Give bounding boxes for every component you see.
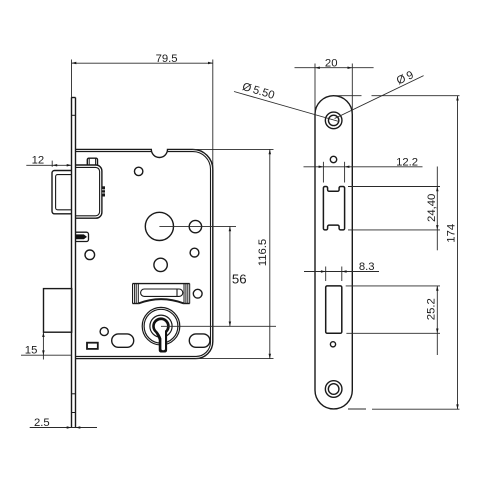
svg-text:79.5: 79.5	[156, 53, 178, 65]
dim 25.2 extension top	[346, 285, 440, 287]
lower tab below latch (pin with conical tip)	[76, 232, 89, 241]
dim 56 line	[229, 226, 231, 326]
svg-text:20: 20	[325, 58, 338, 70]
dim 116.5 extension bottom	[196, 358, 274, 360]
cylinder ring inner	[150, 315, 172, 337]
arrows 116.5	[269, 149, 272, 154]
oval slot left	[112, 334, 134, 347]
lock case outer outline	[76, 149, 213, 358]
leader diameter 5.50	[234, 92, 339, 122]
dim 8.3 ticks	[325, 267, 327, 282]
faceplate edge view (left view)	[72, 98, 76, 428]
spindle centerline	[159, 225, 236, 227]
cylinder ring outer	[142, 307, 180, 345]
latch guide tab inner walls	[89, 158, 95, 165]
svg-text:116.5: 116.5	[257, 239, 269, 266]
top screw hole outer	[325, 112, 342, 129]
svg-text:25.2: 25.2	[425, 298, 437, 320]
dim 174 line	[457, 96, 459, 410]
faceplate edge tick 3	[72, 412, 76, 414]
latch bolt body inner line	[76, 167, 100, 215]
small hole left of oval	[100, 327, 108, 335]
medium hole left-center	[154, 258, 167, 271]
arrows 20	[315, 66, 320, 69]
arrows 12.2	[319, 166, 324, 169]
dim 8.3 line	[304, 271, 379, 273]
leader diameter 9	[335, 76, 424, 119]
deadbolt	[44, 289, 72, 333]
latch bolt head bevel	[56, 175, 72, 210]
circle right of spindle	[189, 220, 201, 232]
dim 12 line	[26, 164, 71, 166]
dim 25.2 extension bottom	[346, 332, 440, 334]
latch stop nub on right	[102, 186, 105, 196]
arrows 12	[52, 164, 57, 167]
arrows 24.40	[436, 187, 439, 192]
spring bar lower arch	[138, 299, 184, 303]
faceplate edge tick 2	[72, 393, 76, 395]
oval slot right	[189, 334, 210, 347]
cylinder centerline	[161, 325, 276, 327]
dim 15 line	[42, 332, 44, 359]
dim 79.5 line	[72, 62, 213, 64]
deadbolt slot	[326, 286, 342, 333]
cylinder keyhole profile	[152, 317, 170, 352]
arrows 56	[229, 226, 232, 231]
svg-text:2.5: 2.5	[34, 417, 50, 429]
svg-text:12: 12	[32, 155, 45, 167]
dim 24.40 extension bottom	[348, 229, 440, 231]
svg-text:24,40: 24,40	[426, 194, 438, 222]
arrows 8.3	[321, 270, 326, 273]
top screw hole inner	[328, 115, 338, 125]
svg-text:8.3: 8.3	[359, 261, 375, 273]
dim 79.5 extension lines	[71, 60, 73, 98]
cylinder keyhole inner face	[155, 320, 167, 350]
svg-text:56: 56	[232, 272, 247, 287]
dim 20 extension lines	[314, 64, 316, 115]
dim 116.5 extension top	[193, 148, 274, 150]
latch bolt body	[76, 165, 102, 218]
cylinder ring middle	[144, 309, 178, 343]
small rect lower-left	[87, 343, 98, 349]
svg-text:12.2: 12.2	[396, 157, 418, 169]
bottom screw hole outer	[325, 381, 342, 398]
spring bar right bracket	[184, 284, 190, 304]
dim 2.5 line	[30, 427, 97, 429]
small hole top-left of case	[134, 167, 142, 175]
spring bar top edge	[133, 283, 190, 285]
small hole right of spring bar	[193, 289, 202, 298]
arrows 174	[456, 96, 459, 101]
small hole right side upper	[190, 248, 199, 257]
bottom screw hole inner	[328, 384, 339, 395]
screw post circle below latch	[85, 250, 95, 260]
faceplate edge tick 1	[72, 114, 76, 116]
spring bar left bracket	[133, 284, 139, 304]
dim 25.2 line	[436, 286, 438, 355]
arrows 2.5	[67, 426, 72, 429]
latch guide tab on top	[87, 158, 97, 165]
dim 174 extension top	[334, 95, 362, 97]
spring bar bottom edges	[133, 303, 139, 305]
dim 24.40 extension top	[348, 186, 440, 188]
dim 12 tick at latch tip	[51, 161, 53, 167]
arrows 79.5	[72, 62, 77, 65]
spring bar slot	[141, 289, 183, 296]
dim 12.2 ticks	[322, 162, 324, 183]
small hole above latch slot	[330, 156, 336, 162]
arrows 15	[42, 332, 45, 337]
arrows 25.2	[436, 286, 439, 291]
small hole below deadbolt slot	[330, 342, 335, 347]
latch slot	[323, 187, 344, 230]
spring bar slot divider	[176, 289, 178, 296]
dim 15 extension	[21, 354, 72, 356]
svg-text:Ø 9: Ø 9	[395, 69, 416, 87]
dim 12.2 line	[304, 166, 423, 168]
dim 24.40 line	[436, 167, 438, 251]
lock case inner outline	[76, 152, 211, 357]
latch bolt head	[52, 171, 72, 214]
svg-text:174: 174	[445, 224, 457, 243]
dim 174 extension bottom	[348, 408, 366, 410]
dim 116.5 line	[269, 149, 271, 358]
spindle follower hole	[145, 212, 173, 240]
svg-text:15: 15	[25, 344, 38, 356]
dim 20 line	[295, 67, 374, 69]
faceplate front view (right view)	[315, 96, 352, 409]
